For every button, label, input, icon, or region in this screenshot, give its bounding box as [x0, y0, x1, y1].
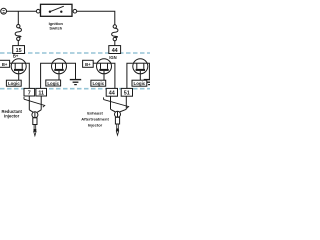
- driver block 4 (low side, exhaust): [127, 59, 150, 89]
- wire Q3 output to pin 44: [112, 63, 115, 88]
- wire B+ box to transistor Q1: [10, 62, 12, 64]
- wire Q1 output to pin 7: [26, 63, 29, 88]
- svg-text:Logic: Logic: [47, 81, 59, 86]
- wire pin 7 down: [28, 96, 30, 110]
- svg-text:51: 51: [124, 91, 130, 97]
- svg-text:Logic: Logic: [8, 81, 20, 86]
- wire Q2 to ground: [67, 63, 76, 79]
- wire pin 51 up to transistor Q4: [127, 63, 133, 88]
- svg-text:Aftertreatment: Aftertreatment: [81, 116, 109, 121]
- transistor Q2: [52, 59, 67, 74]
- connector line 2: [104, 97, 129, 108]
- transistor Q4: [133, 59, 148, 74]
- logic box 1: [6, 80, 21, 86]
- wire battery to ignition switch: [7, 10, 37, 12]
- logic box 4: [132, 80, 147, 86]
- ECU boundary dashed line (top): [0, 52, 150, 54]
- wire Q1 gate to logic 1: [18, 71, 20, 80]
- driver block 1 (high side, reductant): [0, 59, 29, 89]
- logic box 2: [46, 80, 61, 86]
- wire fuse F2 to pin 44: [114, 41, 116, 46]
- fuse F1: [17, 25, 20, 28]
- svg-text:Injector: Injector: [88, 122, 103, 127]
- svg-text:7: 7: [28, 91, 31, 97]
- wire pin 51 down: [125, 96, 127, 109]
- wire Q3 gate to logic 3: [103, 71, 105, 80]
- ignition switch box: [41, 4, 73, 16]
- wire pin 11 up to transistor Q2: [41, 63, 52, 88]
- driver block 3 (high side, exhaust): [83, 59, 115, 89]
- pin 11 box: [36, 88, 47, 96]
- svg-text:44: 44: [109, 91, 115, 97]
- wire junction down to fuse F1: [17, 11, 19, 24]
- wire B+ box to transistor Q3: [93, 62, 96, 64]
- fuse F2: [113, 25, 116, 28]
- svg-text:44: 44: [112, 48, 118, 54]
- wire Q4 to ground: [148, 63, 150, 79]
- svg-text:Injector: Injector: [4, 114, 19, 119]
- wire pin 11 down: [40, 96, 42, 110]
- wire ignition switch to fuse F2: [77, 11, 115, 25]
- battery terminal B+: [1, 8, 7, 14]
- pin 51 box: [121, 88, 132, 96]
- pin 44 box (top): [109, 46, 121, 54]
- pin 7 box: [24, 88, 35, 96]
- pin 15 box: [13, 46, 25, 54]
- svg-text:Logic: Logic: [92, 81, 104, 86]
- wire Q2 gate to logic 2: [58, 71, 60, 80]
- logic box 3: [91, 80, 106, 86]
- B+ supply box 2: [83, 60, 94, 67]
- B+ supply box 1: [0, 60, 10, 67]
- svg-text:B+: B+: [85, 62, 91, 67]
- svg-text:B+: B+: [13, 54, 19, 59]
- exhaust injector wiring: [104, 96, 129, 135]
- switch contacts: [49, 11, 51, 13]
- transistor Q3: [97, 59, 112, 74]
- ground 1: [70, 79, 81, 81]
- injector INJ1: [29, 110, 33, 113]
- switch blade: [50, 6, 64, 12]
- svg-text:Exhaust: Exhaust: [87, 110, 103, 115]
- svg-text:IGN: IGN: [109, 55, 116, 60]
- reductant injector wiring: [24, 96, 45, 136]
- transistor Q1: [11, 59, 26, 74]
- svg-text:B+: B+: [2, 62, 8, 67]
- svg-text:11: 11: [38, 91, 44, 97]
- ignition switch terminals: [36, 9, 40, 13]
- svg-text:Switch: Switch: [49, 26, 62, 31]
- wire fuse F1 to pin 15: [17, 41, 19, 46]
- ECU boundary dashed line (bottom): [0, 88, 150, 90]
- ground 2 (clipped): [144, 79, 150, 81]
- injector INJ2: [111, 109, 116, 112]
- wire pin 44 down: [110, 96, 112, 109]
- pin 44 box (bottom): [106, 88, 117, 96]
- svg-text:Logic: Logic: [134, 81, 146, 86]
- driver block 2 (low side, reductant): [41, 59, 82, 89]
- wire Q4 gate to logic 4: [139, 71, 141, 80]
- connector line 1: [24, 97, 45, 107]
